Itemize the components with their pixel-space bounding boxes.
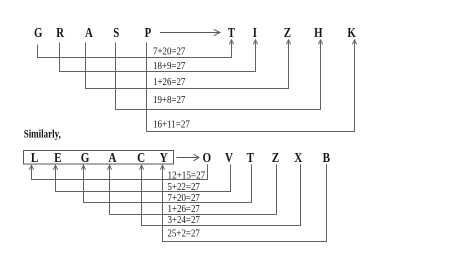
svg-text:G: G (81, 150, 90, 165)
value label 19+8=27 (153, 95, 185, 106)
node T (228, 25, 235, 40)
node Z2 (272, 150, 279, 165)
wire S to H (116, 40, 323, 110)
svg-text:P: P (145, 25, 152, 40)
node L (31, 150, 38, 165)
node G (34, 25, 43, 40)
svg-text:H: H (314, 25, 323, 40)
node A (85, 25, 93, 40)
wire B to Y (160, 164, 326, 241)
svg-text:Z: Z (284, 25, 291, 40)
node G2 (81, 150, 90, 165)
node P (145, 25, 152, 40)
node E (54, 150, 61, 165)
wire A to Z (86, 40, 291, 89)
value label 7+20=27 (153, 46, 185, 57)
svg-text:T: T (228, 25, 235, 40)
arrow LEGACY to OVTZXB (word mapping arrow) (177, 154, 199, 161)
node I (253, 25, 257, 40)
wire X to C (139, 164, 300, 225)
svg-text:7+20=27: 7+20=27 (168, 193, 200, 204)
svg-text:Similarly,: Similarly, (24, 127, 61, 141)
node S (113, 25, 119, 40)
node Z (284, 25, 291, 40)
node X (294, 150, 302, 165)
svg-text:1+26=27: 1+26=27 (153, 77, 185, 88)
svg-text:7+20=27: 7+20=27 (153, 46, 185, 57)
wire G to T (38, 40, 234, 58)
svg-text:I: I (253, 25, 257, 40)
wire P to K (147, 40, 357, 132)
svg-text:12+15=27: 12+15=27 (168, 171, 206, 182)
svg-text:A: A (108, 150, 116, 165)
svg-text:T: T (247, 150, 255, 165)
node V (225, 150, 233, 165)
svg-text:25+2=27: 25+2=27 (168, 229, 200, 240)
svg-text:E: E (54, 150, 61, 165)
box around LEGACY (24, 151, 174, 165)
node O (202, 150, 211, 165)
node K (347, 25, 356, 40)
node B (323, 150, 330, 165)
value label 3+24=27 (168, 215, 200, 226)
svg-text:18+9=27: 18+9=27 (153, 61, 185, 72)
svg-text:B: B (323, 150, 330, 165)
value label 25+2=27 (168, 229, 200, 240)
wire R to I (60, 40, 258, 72)
svg-text:K: K (347, 25, 356, 40)
svg-text:5+22=27: 5+22=27 (168, 182, 200, 193)
node T2 (247, 150, 255, 165)
svg-text:Z: Z (272, 150, 279, 165)
value label 18+9=27 (153, 61, 185, 72)
value label 7+20=27 (second) (168, 193, 200, 204)
svg-text:16+11=27: 16+11=27 (153, 119, 190, 130)
node R (56, 25, 64, 40)
node H (314, 25, 323, 40)
svg-text:O: O (202, 150, 211, 165)
svg-text:G: G (34, 25, 43, 40)
node A2 (108, 150, 116, 165)
value label 1+26=27 (153, 77, 185, 88)
svg-text:X: X (294, 150, 302, 165)
wire V to E (53, 164, 230, 191)
wire O to L (29, 164, 207, 179)
label Similarly (24, 127, 61, 141)
value label 16+11=27 (153, 119, 190, 130)
svg-text:V: V (225, 150, 233, 165)
svg-text:19+8=27: 19+8=27 (153, 95, 185, 106)
wire Z to A (107, 164, 276, 214)
svg-text:S: S (113, 25, 119, 40)
svg-text:C: C (137, 150, 145, 165)
value label 12+15=27 (168, 171, 206, 182)
node C (137, 150, 145, 165)
wire T to G (81, 164, 251, 202)
svg-text:3+24=27: 3+24=27 (168, 215, 200, 226)
svg-text:1+26=27: 1+26=27 (168, 204, 200, 215)
node Y (160, 150, 168, 165)
svg-text:A: A (85, 25, 93, 40)
value label 1+26=27 (second) (168, 204, 200, 215)
svg-text:Y: Y (160, 150, 168, 165)
svg-text:L: L (31, 150, 38, 165)
value label 5+22=27 (168, 182, 200, 193)
svg-text:R: R (56, 25, 64, 40)
arrow P to T (word mapping arrow) (160, 29, 220, 35)
